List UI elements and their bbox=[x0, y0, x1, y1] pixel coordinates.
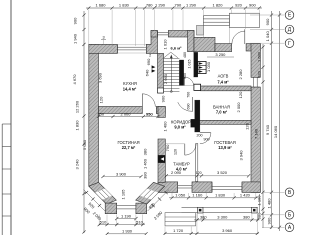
svg-text:1 290: 1 290 bbox=[155, 2, 166, 7]
exterior wall top-middle thick part bbox=[194, 37, 215, 51]
svg-text:7,0 м²: 7,0 м² bbox=[216, 110, 228, 115]
svg-text:1 460: 1 460 bbox=[143, 158, 148, 169]
svg-text:900: 900 bbox=[267, 217, 272, 224]
svg-text:1 190: 1 190 bbox=[121, 213, 132, 218]
svg-text:2 660: 2 660 bbox=[163, 73, 168, 84]
entrance door bottom (double line) bbox=[178, 185, 192, 187]
stair bay right wall bbox=[188, 31, 195, 52]
stair bay top wall left piece bbox=[151, 31, 157, 38]
bay diagonal dim line right bbox=[148, 190, 170, 212]
title block rung 4 bbox=[2, 193, 11, 195]
bath south wall bbox=[198, 120, 251, 124]
svg-text:120: 120 bbox=[98, 96, 103, 103]
bay bottom-left pier bbox=[105, 203, 117, 214]
wall corner / stair-bay left wall bbox=[146, 31, 157, 54]
svg-text:14 060: 14 060 bbox=[273, 125, 278, 138]
svg-text:3 300: 3 300 bbox=[217, 215, 228, 220]
svg-text:4 670: 4 670 bbox=[72, 74, 77, 85]
bay left cant wall bbox=[89, 182, 117, 204]
svg-text:120: 120 bbox=[238, 91, 243, 98]
bottom dimension row 3 bbox=[164, 233, 259, 235]
svg-text:1 680: 1 680 bbox=[257, 51, 262, 62]
svg-text:АОГВ: АОГВ bbox=[218, 73, 229, 78]
exterior wall right upper bbox=[251, 44, 260, 78]
door kitchen-living bbox=[141, 94, 143, 107]
bay extension lines bbox=[98, 215, 100, 226]
svg-text:3 250: 3 250 bbox=[215, 52, 226, 57]
exterior wall top-left (kitchen) bbox=[89, 44, 118, 53]
svg-text:1 015: 1 015 bbox=[187, 60, 191, 69]
tambour vent block bbox=[158, 155, 165, 162]
exterior wall top-right piece bbox=[246, 44, 260, 51]
bay bottom-right pier bbox=[136, 203, 147, 214]
svg-text:950: 950 bbox=[146, 111, 153, 116]
svg-text:7 140: 7 140 bbox=[253, 128, 258, 139]
bottom dimension row 1 bbox=[169, 197, 258, 199]
svg-text:1 290: 1 290 bbox=[186, 2, 197, 7]
svg-text:1 830: 1 830 bbox=[74, 120, 79, 131]
svg-text:790: 790 bbox=[165, 144, 170, 151]
grid line leader bbox=[262, 226, 284, 228]
kitchen south wall stub bbox=[156, 107, 165, 114]
svg-text:3 240: 3 240 bbox=[74, 159, 79, 170]
left dimension chain bbox=[83, 11, 85, 233]
porch column left bbox=[197, 207, 203, 213]
bay pier dimensions bbox=[99, 224, 145, 226]
stair right wall (black) bbox=[179, 60, 183, 86]
bay overall dimension bbox=[107, 233, 146, 235]
kitchen south wall bbox=[99, 107, 143, 114]
window aogv right wall bbox=[252, 77, 254, 87]
porch column right bbox=[251, 207, 257, 213]
svg-text:1 930: 1 930 bbox=[122, 229, 133, 234]
svg-text:510: 510 bbox=[100, 219, 107, 224]
svg-text:790: 790 bbox=[175, 2, 182, 7]
title block left edge bbox=[1, 124, 3, 235]
svg-text:2 000: 2 000 bbox=[236, 102, 241, 113]
bottom steps bbox=[165, 213, 196, 226]
grid line leader bbox=[250, 42, 284, 44]
stair bay top wall right piece bbox=[168, 31, 194, 38]
right outer dimension chain bbox=[279, 11, 281, 231]
svg-text:900: 900 bbox=[72, 17, 77, 24]
svg-text:3: 3 bbox=[102, 36, 104, 40]
svg-text:2 280: 2 280 bbox=[238, 69, 243, 80]
porch slab bbox=[182, 206, 258, 208]
svg-text:1 050: 1 050 bbox=[175, 193, 186, 198]
svg-text:1 940: 1 940 bbox=[72, 33, 77, 44]
svg-text:380: 380 bbox=[243, 215, 250, 220]
svg-text:1 680: 1 680 bbox=[95, 2, 106, 7]
window guest room bottom bbox=[212, 185, 242, 187]
window kitchen top bbox=[117, 46, 146, 48]
aogv doorway line bbox=[180, 85, 194, 87]
title block rung 1 bbox=[2, 123, 11, 125]
stair wall end cap bbox=[158, 88, 164, 93]
title block rung 5 bbox=[2, 215, 11, 217]
svg-text:380: 380 bbox=[143, 171, 148, 178]
svg-text:1 160: 1 160 bbox=[192, 193, 203, 198]
door bath bbox=[192, 97, 194, 111]
svg-text:200: 200 bbox=[197, 134, 203, 138]
top dimension chain bbox=[86, 7, 262, 9]
svg-text:1 720: 1 720 bbox=[173, 228, 184, 233]
svg-text:1 480: 1 480 bbox=[267, 198, 272, 209]
svg-text:3 900: 3 900 bbox=[116, 171, 127, 176]
svg-text:780: 780 bbox=[146, 2, 153, 7]
svg-text:2: 2 bbox=[149, 54, 151, 58]
svg-text:1 830: 1 830 bbox=[215, 193, 226, 198]
svg-text:22,7 м²: 22,7 м² bbox=[122, 145, 136, 150]
kitchen vent arrows bbox=[152, 65, 156, 68]
svg-text:900: 900 bbox=[183, 73, 187, 79]
svg-text:5 030: 5 030 bbox=[82, 139, 87, 150]
window stair bay bbox=[157, 32, 168, 34]
tambour east wall (thin) bbox=[196, 144, 198, 182]
corridor east wall piece 2 (black) bbox=[195, 100, 200, 132]
bottom wall tambour corner bbox=[158, 182, 178, 193]
svg-text:6,6 м²: 6,6 м² bbox=[171, 45, 183, 50]
grid line leader bbox=[250, 29, 284, 31]
svg-text:2 000: 2 000 bbox=[120, 111, 131, 116]
bay right cant window bbox=[140, 189, 158, 200]
exterior wall left bbox=[89, 44, 99, 186]
title block rung 2 bbox=[2, 146, 11, 148]
svg-text:1 420: 1 420 bbox=[240, 193, 251, 198]
door tambour bbox=[184, 144, 186, 155]
svg-text:1 100: 1 100 bbox=[257, 195, 262, 206]
svg-text:900: 900 bbox=[249, 2, 256, 7]
exterior wall right lower bbox=[251, 87, 260, 192]
svg-text:3 520: 3 520 bbox=[217, 170, 228, 175]
chimney block aogv bbox=[194, 52, 198, 77]
bay left cant window bbox=[95, 189, 112, 200]
door aogv bbox=[183, 77, 185, 86]
opening jamb lines bbox=[158, 117, 165, 119]
svg-text:120: 120 bbox=[174, 149, 178, 155]
grid bubble Г bbox=[285, 39, 294, 48]
aogv south wall bbox=[201, 86, 251, 91]
svg-text:900: 900 bbox=[265, 18, 270, 25]
grid bubble В bbox=[285, 188, 294, 197]
kitchen dimension row bbox=[99, 116, 159, 118]
svg-text:1 040: 1 040 bbox=[265, 31, 270, 42]
svg-text:КУХНЯ: КУХНЯ bbox=[123, 81, 137, 86]
right inner dimension chain bbox=[262, 44, 264, 228]
svg-text:690: 690 bbox=[146, 58, 151, 65]
top extension lines bbox=[88, 10, 90, 45]
svg-text:380: 380 bbox=[143, 148, 148, 155]
entrance door top (leaf and swing) bbox=[244, 29, 246, 44]
svg-text:4,0 м²: 4,0 м² bbox=[176, 166, 188, 171]
living/tambour west wall upper bbox=[158, 107, 165, 118]
svg-text:1 105: 1 105 bbox=[121, 189, 126, 200]
grid bubble А bbox=[285, 223, 294, 232]
svg-text:Г: Г bbox=[288, 41, 291, 47]
bottom dimension row 2 bbox=[194, 219, 260, 221]
svg-text:950: 950 bbox=[97, 111, 104, 116]
svg-text:920: 920 bbox=[235, 2, 242, 7]
grid bubble Д bbox=[285, 25, 294, 34]
svg-text:1 010: 1 010 bbox=[163, 39, 168, 50]
bottom wall middle pier bbox=[192, 182, 212, 193]
grid bubble Б bbox=[285, 211, 294, 220]
grid line leader bbox=[250, 14, 284, 16]
svg-text:1 830: 1 830 bbox=[119, 2, 130, 7]
svg-text:920: 920 bbox=[257, 70, 262, 77]
svg-text:700: 700 bbox=[187, 92, 191, 98]
svg-text:9 740: 9 740 bbox=[265, 124, 270, 135]
top porch landing bbox=[229, 13, 259, 27]
svg-text:1 400: 1 400 bbox=[163, 121, 168, 132]
kitchen-stair wall bbox=[158, 53, 164, 93]
bottom wall right pier bbox=[242, 182, 260, 193]
corridor-tambour line bbox=[165, 143, 185, 145]
svg-text:640: 640 bbox=[144, 69, 149, 76]
svg-text:13,9 м²: 13,9 м² bbox=[218, 145, 232, 150]
bay bottom window bbox=[117, 205, 136, 207]
bay diagonal dim line left bbox=[84, 190, 106, 212]
door guest room bbox=[200, 132, 211, 134]
chimney base square bbox=[194, 84, 201, 90]
svg-text:120: 120 bbox=[244, 122, 249, 129]
top porch steps bbox=[203, 16, 229, 26]
svg-text:900: 900 bbox=[204, 138, 210, 142]
right middle dimension chain bbox=[271, 11, 273, 229]
svg-text:900: 900 bbox=[161, 95, 166, 102]
bay window dimension bbox=[117, 218, 136, 220]
svg-text:3 960: 3 960 bbox=[222, 228, 233, 233]
svg-text:3 940: 3 940 bbox=[238, 150, 243, 161]
staircase treads and up arrow bbox=[164, 58, 180, 60]
svg-text:7,4 м²: 7,4 м² bbox=[217, 79, 229, 84]
grid bubble Е bbox=[285, 11, 294, 20]
exterior wall top-middle thin part bbox=[215, 44, 232, 52]
svg-text:380: 380 bbox=[257, 212, 262, 219]
svg-text:1 820: 1 820 bbox=[212, 2, 223, 7]
svg-text:120: 120 bbox=[196, 171, 202, 175]
bottom extension lines bbox=[171, 193, 173, 199]
svg-text:690: 690 bbox=[187, 104, 191, 110]
grid line leader bbox=[262, 214, 284, 216]
svg-text:480: 480 bbox=[183, 52, 187, 58]
svg-text:1 030: 1 030 bbox=[206, 61, 211, 72]
svg-text:510: 510 bbox=[136, 219, 143, 224]
grid line leader bbox=[262, 191, 284, 193]
svg-text:12 260: 12 260 bbox=[74, 100, 79, 113]
bay right cant wall bbox=[136, 182, 165, 204]
svg-text:9,0 м²: 9,0 м² bbox=[174, 124, 186, 129]
title block rung 3 bbox=[2, 168, 11, 170]
bath vent block bbox=[191, 119, 198, 127]
svg-text:3 690: 3 690 bbox=[97, 72, 102, 83]
living/tambour west wall lower bbox=[158, 139, 165, 182]
svg-text:14,4 м²: 14,4 м² bbox=[123, 87, 137, 92]
drawing frame border line bbox=[10, 0, 12, 235]
svg-text:380: 380 bbox=[200, 215, 207, 220]
